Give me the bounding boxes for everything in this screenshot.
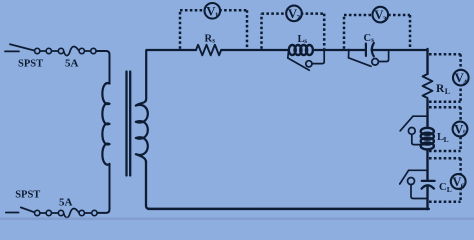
wire fuse to primary [85, 50, 91, 52]
svg-text:L: L [447, 185, 452, 194]
wire: top rail left segment [147, 49, 197, 51]
wire: bottom rail [149, 208, 429, 211]
switch SW3 (bypass across Ls) [287, 50, 290, 59]
wire: rail Cs to right corner [372, 49, 428, 51]
wire: LL to CL [426, 150, 428, 181]
wire: lower supply terminal [6, 212, 19, 214]
voltmeter V1 body [205, 3, 221, 19]
voltmeter V6 sense leads (dashed) [429, 158, 461, 202]
fuse F1 5A (wavy element) [58, 48, 63, 53]
wire: rail Ls to Cs [313, 49, 366, 51]
voltmeter V3 sense leads (dashed) [344, 15, 410, 49]
svg-text:R: R [205, 34, 213, 45]
svg-text:s: s [212, 37, 215, 45]
svg-text:L: L [445, 87, 450, 96]
switch SW2 contact circles [35, 210, 40, 215]
svg-text:6: 6 [461, 181, 465, 190]
switch SW6 (bypass across CL) [409, 169, 428, 171]
svg-text:R: R [436, 83, 445, 95]
wire: right branch top segment [426, 49, 428, 74]
svg-text:SPST: SPST [18, 59, 43, 70]
transformer T1 secondary coil [136, 51, 148, 163]
svg-text:C: C [439, 182, 447, 193]
switch SW1 blade (SPST, open) [10, 44, 35, 50]
voltmeter V4 sense leads (dashed) [429, 54, 461, 102]
wire between SW2 contacts [40, 212, 58, 214]
switch SW5 (bypass across LL) [413, 115, 428, 117]
wire: top switch to transformer primary [96, 51, 109, 84]
svg-text:SPST: SPST [15, 190, 40, 201]
transformer T1 primary coil [102, 83, 109, 165]
inductor LL [421, 128, 434, 135]
resistor RL [423, 74, 433, 100]
wire fuse to last contact [85, 212, 92, 214]
voltmeter V2 body [286, 6, 302, 22]
svg-text:s: s [371, 36, 374, 44]
svg-text:5A: 5A [65, 58, 79, 70]
switch SW4 (bypass across Cs) [348, 50, 350, 58]
capacitor CL top plate [422, 180, 435, 182]
wire between SW1 contacts [40, 50, 58, 52]
voltmeter V3 body [373, 7, 389, 23]
resistor Rs [196, 45, 221, 56]
svg-text:1: 1 [215, 11, 219, 20]
capacitor Cs left plate [365, 44, 367, 56]
svg-text:5: 5 [463, 129, 467, 138]
voltmeter V6 body [451, 174, 466, 189]
wire: rail Rs to Ls [221, 49, 289, 51]
fuse F2 5A (wavy element) [58, 210, 63, 215]
voltmeter V4 body [453, 70, 469, 86]
svg-text:5A: 5A [59, 197, 73, 209]
svg-text:C: C [364, 33, 372, 44]
capacitor Cs right plate (curved) [372, 43, 374, 56]
svg-text:3: 3 [383, 14, 387, 23]
transformer T1 core [127, 72, 131, 176]
capacitor CL bottom plate (curved) [422, 185, 434, 188]
wire: CL to bottom rail [426, 186, 428, 209]
inductor Ls [289, 45, 296, 55]
switch SW1 contact circles [35, 48, 40, 53]
bottom edge shading [0, 217, 474, 220]
svg-text:2: 2 [297, 13, 301, 22]
voltmeter V5 body [453, 122, 468, 137]
voltmeter V5 sense leads (dashed) [429, 107, 461, 151]
wire: secondary bottom to bottom rail [146, 161, 150, 209]
wire: top-left supply terminal [5, 50, 19, 52]
switch SW2 blade (SPST, open) [21, 207, 35, 212]
svg-text:4: 4 [463, 77, 467, 86]
svg-text:s: s [304, 37, 307, 45]
wire: primary bottom to lower switch [97, 164, 109, 213]
voltmeter V1 sense leads (dashed) [180, 10, 461, 202]
wire: RL to LL [426, 100, 428, 128]
svg-text:L: L [444, 135, 449, 144]
voltmeter V2 sense leads (dashed) [262, 14, 325, 49]
